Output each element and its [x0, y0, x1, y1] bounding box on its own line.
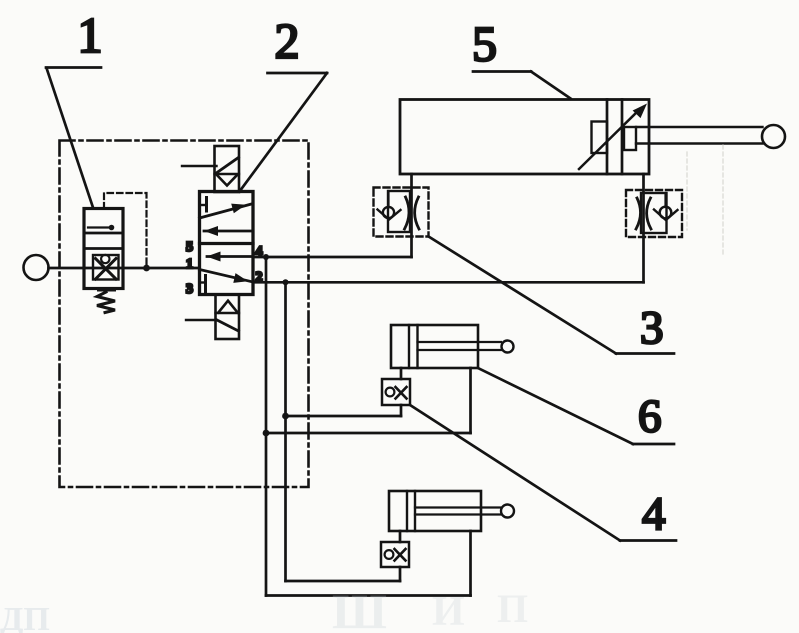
wire C6 right port down: [469, 368, 472, 433]
node junction dot pilot tap: [143, 265, 150, 272]
flow control F3 check stub: [387, 191, 389, 207]
wire C6 left port to throttle: [400, 368, 403, 379]
svg-text:5: 5: [186, 240, 193, 255]
wire branch vertical 2: [284, 282, 287, 581]
flow control F3 solid box: [388, 191, 410, 232]
valve V2 top position blocked-port tick: [200, 204, 207, 206]
flow control F3b right wire through: [642, 174, 645, 282]
flow control F3 throttle arcs: [405, 197, 410, 229]
valve V2 bottom position left arrow: [207, 255, 253, 258]
flow control F3b throttle arcs: [636, 198, 641, 229]
svg-text:1: 1: [78, 7, 103, 63]
throttle T4 X: [395, 549, 406, 561]
cylinder C6 rod: [418, 341, 502, 343]
cylinder C4 body: [389, 491, 481, 531]
svg-text:П: П: [497, 586, 528, 631]
svg-text:3: 3: [640, 302, 664, 354]
cylinder C5 piston rod: [636, 126, 763, 128]
valve V2 top position left arrow: [204, 230, 253, 233]
valve V2 bottom solenoid lead wire: [186, 319, 216, 321]
cylinder C5 left cushion box: [592, 122, 608, 154]
throttle T6 X: [396, 387, 407, 399]
regulator U1 divider lines: [84, 232, 123, 235]
valve V2 middle divider: [200, 242, 254, 245]
wire throttle T6 down: [400, 405, 403, 416]
regulator U1 arrow with dot: [88, 226, 109, 228]
flow control F3 check circle: [383, 207, 394, 218]
svg-text:2: 2: [275, 13, 300, 69]
node dot vertical1 middle branch: [263, 430, 270, 437]
svg-text:И: И: [432, 589, 465, 633]
regulator U1 pilot dashed line: [104, 193, 147, 264]
svg-text:Ш: Ш: [332, 583, 387, 633]
throttle T4 box: [381, 542, 409, 567]
regulator U1 throttle X: [96, 259, 117, 280]
cylinder C6 rod knob: [502, 341, 514, 353]
node dot vertical2 middle branch: [282, 413, 289, 420]
valve V2 top solenoid lead wire: [182, 165, 217, 167]
cylinder C5 piston lines: [606, 100, 609, 175]
regulator U1 spring: [97, 292, 115, 313]
flow control F3b check seat: [654, 210, 678, 221]
wire to vertical2: [286, 415, 402, 418]
cylinder C5 right cushion box: [624, 127, 636, 150]
throttle T6 box: [382, 379, 410, 405]
wire C6 right to vertical1: [266, 432, 471, 435]
wire main supply line to valve port 1: [49, 267, 200, 270]
node dot port4 branch: [263, 254, 269, 260]
svg-text:ДП: ДП: [0, 601, 50, 633]
valve V2 bottom solenoid box: [216, 295, 240, 340]
valve V2 top position diagonal arrow: [200, 204, 252, 218]
throttle T6 circle: [386, 388, 395, 397]
wire branch vertical 1: [265, 257, 268, 596]
wire port4 horizontal: [253, 256, 412, 259]
cylinder C5 rod end knob: [762, 125, 785, 148]
wire C4 left port to throttle: [399, 531, 402, 542]
svg-text:6: 6: [638, 391, 662, 443]
svg-text:3: 3: [186, 282, 193, 297]
cylinder C4 rod: [415, 506, 501, 508]
regulator U1 body: [84, 209, 123, 289]
valve V2 body: [200, 192, 254, 295]
faint scan artifacts: [687, 145, 723, 255]
wire throttle T4 down: [399, 567, 402, 581]
svg-text:4: 4: [642, 488, 666, 540]
svg-text:1: 1: [186, 257, 193, 272]
cylinder C5 adjustability arrow: [579, 109, 640, 169]
flow control F3 left wire through: [410, 174, 413, 257]
regulator U1 bottom pad: [97, 288, 116, 292]
regulator U1 inner throttle box: [93, 255, 119, 280]
cylinder C5 body: [400, 100, 649, 175]
cylinder C4 piston lines: [406, 491, 408, 531]
wire to vertical2 bottom: [286, 580, 401, 583]
flow control F3 dashed box: [374, 188, 429, 237]
flow control F3b solid box: [641, 193, 667, 233]
valve V2 bottom position diagonal arrow: [200, 270, 254, 283]
valve V2 bottom position blocked-port tick: [200, 281, 206, 283]
node dot port2 branch: [283, 279, 289, 285]
flow control F3 check seat: [378, 210, 401, 220]
wire port2 horizontal: [253, 281, 644, 284]
throttle T4 circle: [385, 550, 394, 559]
wire C4 right to vertical1 bottom: [266, 594, 471, 597]
flow control F3b check stub: [664, 193, 666, 207]
wire C4 right port down: [469, 531, 472, 596]
flow control F3b dashed box: [626, 190, 682, 237]
enclosure dash-dot box around units 1 and 2: [60, 141, 309, 488]
cylinder C6 piston lines: [408, 325, 410, 368]
regulator U1 inner circle: [101, 255, 109, 263]
source circle (air supply): [24, 255, 49, 280]
svg-text:5: 5: [472, 16, 497, 72]
cylinder C6 body: [391, 325, 478, 368]
valve V2 top solenoid box: [215, 146, 240, 192]
cylinder C4 rod knob: [501, 505, 514, 518]
flow control F3b check circle: [660, 207, 672, 219]
